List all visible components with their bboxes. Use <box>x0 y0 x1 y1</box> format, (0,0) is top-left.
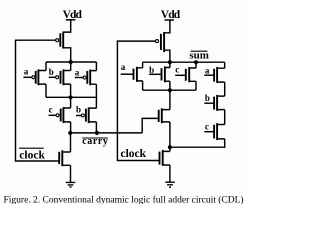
node dot rail1 right at precharge <box>168 60 172 64</box>
svg-text:b: b <box>76 104 81 114</box>
node dot rail2 right <box>168 88 172 92</box>
wire clock: precharge gate down to footer gate right <box>117 41 159 160</box>
nmos footer left: leads <box>62 152 70 165</box>
pmos A2: gate bar <box>86 71 88 84</box>
Vdd terminal bar right <box>165 19 175 21</box>
nmos A4: leads <box>217 68 225 82</box>
sum label overbar <box>191 50 208 52</box>
nmos M1 (carry input): gate bar <box>158 110 160 122</box>
nmos footer right: leads <box>163 151 170 165</box>
svg-text:b: b <box>149 65 154 75</box>
pmos B1: leads <box>63 71 70 85</box>
nmos C3 (sum row c): gate wire <box>175 74 186 76</box>
wire clockbar: precharge gate down left side to footer gate <box>16 40 60 161</box>
ground symbol left <box>66 182 76 187</box>
nmos A3: leads <box>137 68 143 81</box>
svg-text:carry: carry <box>82 136 108 147</box>
wire left bend column right block <box>142 62 144 90</box>
svg-text:clock: clock <box>19 150 45 162</box>
svg-text:c: c <box>205 122 209 132</box>
wire center column right block <box>169 62 171 147</box>
nmos C4: channel bar <box>216 123 218 140</box>
wire carry to middle nmos gate <box>142 118 159 132</box>
wire footer source to ground right <box>169 165 171 182</box>
nmos B3: channel bar <box>164 66 166 82</box>
nmos B4: leads <box>217 96 225 110</box>
pmos B2: channel bar <box>88 107 90 123</box>
wire footer drain to carry rail <box>70 133 72 152</box>
wire right bend column x96 left block <box>95 62 97 133</box>
nmos C4: leads <box>217 125 225 139</box>
clockbar label overbar <box>19 147 44 149</box>
node dot carry rail right <box>95 131 99 135</box>
wire footer drain to bottom node right <box>169 147 171 151</box>
pmos precharge right: channel bar <box>163 32 165 52</box>
wire left bend column x46 <box>45 62 47 97</box>
pmos B1 (row1 mid): gate wire and bubble <box>49 76 56 78</box>
pmos A1: channel bar <box>37 69 39 85</box>
node dot on rail2 left <box>69 95 73 99</box>
svg-text:Figure. 2. Conventional dynami: Figure. 2. Conventional dynamic logic fu… <box>4 195 244 204</box>
svg-text:a: a <box>24 67 29 77</box>
wire rail1 right block <box>143 61 225 63</box>
pmos A2: channel bar <box>89 70 91 86</box>
wire c branch bends right block <box>195 62 197 90</box>
svg-text:b: b <box>49 67 54 77</box>
wire Vdd to precharge source right <box>164 20 170 33</box>
pmos precharge right: gate bar <box>160 34 162 50</box>
wire series chain right side <box>224 62 226 148</box>
pmos precharge right: drain lead <box>164 50 170 62</box>
nmos footer right: channel bar <box>162 150 164 166</box>
svg-text:clock: clock <box>121 148 147 160</box>
carry label overbar <box>82 137 108 139</box>
nmos C4 (chain c): gate wire <box>204 131 214 133</box>
pmos C1: leads <box>63 108 70 122</box>
nmos C4: gate bar <box>213 125 215 139</box>
node dot carry rail at footer <box>68 131 72 135</box>
pmos precharge left: gate bubble <box>56 39 59 42</box>
svg-text:c: c <box>175 65 179 75</box>
wire rail3 carry rail <box>70 132 142 134</box>
pmos B1: gate bar <box>60 71 62 84</box>
node dot on rail1 left <box>69 60 73 64</box>
svg-text:a: a <box>75 67 80 77</box>
wire rail2 (mid) left block <box>46 96 96 98</box>
wire footer source to ground <box>70 165 72 182</box>
pmos precharge left: channel bar <box>62 32 64 49</box>
pmos C1 (row2 left): gate wire and bubble <box>49 114 56 116</box>
nmos C3: gate bar <box>185 69 187 81</box>
wire bottom node to series chain <box>170 146 225 148</box>
pmos B2: leads <box>89 108 97 122</box>
svg-text:a: a <box>205 65 210 75</box>
nmos B3: gate bar <box>161 68 163 80</box>
nmos B4: gate bar <box>213 97 215 110</box>
nmos A3: channel bar <box>136 67 138 82</box>
node dot rail1 right at c branch <box>194 60 198 64</box>
pmos A1: gate bar <box>35 71 37 84</box>
wire center column segments left block <box>70 62 72 133</box>
pmos A1: leads <box>38 71 46 85</box>
nmos A4: gate bar <box>213 69 215 82</box>
nmos footer left: channel bar <box>61 150 63 166</box>
pmos A1 (row1 left): gate wire and bubble <box>23 76 32 78</box>
nmos footer left: gate bar <box>58 152 60 164</box>
wire Vdd to precharge source <box>63 20 70 32</box>
nmos M1: channel bar <box>161 108 163 123</box>
ground symbol right <box>165 182 175 187</box>
nmos A4 (chain a): gate wire <box>204 74 214 76</box>
svg-text:Vdd: Vdd <box>161 9 181 21</box>
pmos A2 (row1 right): gate wire and bubble <box>75 77 83 79</box>
pmos B2 (row2 right): gate wire and bubble <box>76 115 81 117</box>
node dot bottom right block <box>168 145 172 149</box>
svg-text:a: a <box>121 62 126 72</box>
nmos footer right: gate bar <box>159 152 161 165</box>
nmos B3: leads <box>165 68 170 82</box>
nmos B4 (chain b): gate wire <box>204 102 214 104</box>
pmos C1: gate bar <box>60 109 62 122</box>
nmos C3: channel bar <box>188 67 190 82</box>
svg-text:c: c <box>49 105 53 115</box>
pmos precharge left: drain lead <box>63 48 70 62</box>
pmos A2: leads <box>90 71 96 85</box>
nmos M1: leads <box>162 110 170 122</box>
pmos precharge right: gate bubble <box>156 40 159 43</box>
Vdd terminal bar left <box>66 19 76 21</box>
pmos B2: gate bar <box>85 109 87 122</box>
pmos C1: channel bar <box>62 107 64 123</box>
pmos precharge left: gate bar <box>59 33 61 47</box>
nmos C3: leads <box>189 68 196 81</box>
nmos B4: channel bar <box>216 95 218 111</box>
svg-text:sum: sum <box>189 49 209 61</box>
nmos A4: channel bar <box>216 67 218 83</box>
nmos A3 (sum row a): gate wire <box>121 73 134 75</box>
nmos B3 (sum row b): gate wire <box>149 73 161 75</box>
nmos A3: gate bar <box>133 69 135 80</box>
svg-text:b: b <box>205 93 210 103</box>
wire rail2 right block <box>143 89 196 91</box>
wire rail1 left block <box>46 61 96 63</box>
pmos B1: channel bar <box>62 69 64 85</box>
